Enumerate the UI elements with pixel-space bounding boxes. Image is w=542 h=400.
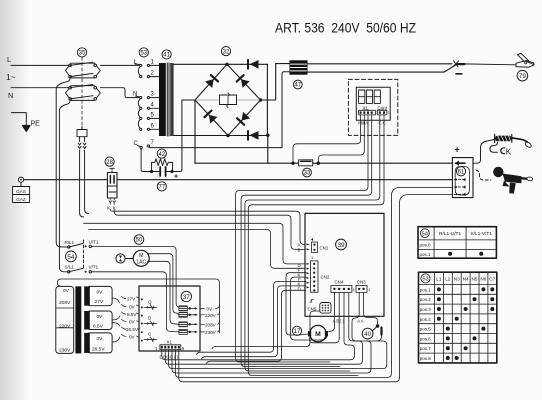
switch 54 contact row 1 [68,246,70,248]
wire negative output upper [308,63,453,65]
diode upper-right arm [237,75,250,88]
wire coil band to CN2-1 [84,223,306,264]
svg-text:27V: 27V [127,297,136,302]
svg-text:1AC: 1AC [136,259,146,265]
wire U/T1 to board 37 input a [92,246,181,308]
junction bottom output [266,134,269,137]
switch S35 motor coil box [77,130,87,137]
svg-text:26.5V: 26.5V [92,346,105,352]
aux secondary box 2 [87,311,112,330]
switch S53 contact row 2 [140,76,142,78]
svg-text:C7: C7 [489,277,495,282]
switch S53 gang curl L-2 [138,67,140,76]
secondary tap squiggles to board 37 [137,297,140,341]
bridge node top [225,63,228,66]
switch S35 pole 1 outline [66,63,101,78]
wire display X1 pin1 to choke33 left [293,115,361,162]
transformer T41 core [167,63,169,136]
wire tap6 [150,128,160,130]
board 37 triac block 2 [179,312,188,317]
wire coil feed 1 with disconnect marks [78,137,83,217]
svg-text:A A: A A [357,318,363,323]
svg-text:37: 37 [183,294,190,301]
wire CN2-F1 left loop down [202,286,307,359]
secondary tap label 27V [122,297,127,299]
capacitor C plates [160,167,165,176]
svg-text:pos.5: pos.5 [420,327,432,332]
wire CN2-3 to motor 17 [286,273,308,335]
fan icon 8 [116,254,125,263]
svg-text:77: 77 [158,185,165,191]
wire CN5 loop to bottom [212,311,320,349]
solenoid valve 28 vent mark [110,168,115,172]
svg-text:0V: 0V [129,305,136,310]
svg-text:GAZ: GAZ [16,197,26,202]
control board 37 box [139,286,200,351]
svg-text:61: 61 [458,170,465,176]
svg-text:40: 40 [364,331,371,338]
choke L33 circle label [303,168,312,177]
diode on bottom output line [250,131,259,140]
wire secondary bottom to bridge [174,135,228,137]
unit 61 inner contact rows [454,180,464,195]
svg-text:M: M [315,331,321,338]
svg-text:26.5V: 26.5V [126,327,139,332]
aux transformer primary loop wire [57,279,219,301]
wire V/T1 to board 37 input d [92,272,179,332]
mig torch cable hook [490,143,498,153]
wire display X1 pin2 to choke33 right [318,115,364,162]
svg-text:pos.2: pos.2 [420,297,432,302]
svg-text:pos.0: pos.0 [420,243,432,248]
svg-text:208V: 208V [205,322,217,327]
svg-text:8.5V: 8.5V [127,312,137,317]
svg-text:N6: N6 [480,277,486,282]
svg-text:230V: 230V [59,348,71,354]
7-segment digit 3 [374,90,380,103]
switch S35 pole 2 contacts [69,86,72,89]
svg-text:0V: 0V [97,336,104,342]
svg-text:A88A: A88A [358,121,368,126]
svg-text:0V: 0V [207,306,214,311]
svg-text:39: 39 [337,242,345,249]
wire CN3-A1 loop around potentiometer to bottom bundle [169,292,387,368]
dashed wire unit 61 to spool gun [476,170,491,180]
wire valve K2 to right [114,210,122,216]
transformer T41 circle label [162,50,171,59]
svg-text:PE: PE [31,121,41,128]
gas label box GAS/GAZ [20,182,22,186]
wire tap2 [150,76,160,78]
svg-text:54: 54 [422,231,428,237]
svg-text:230V: 230V [205,330,217,335]
wire L to main switch [100,64,138,66]
mig torch neck and nozzle [513,138,530,144]
svg-text:pos.4: pos.4 [420,317,432,322]
switch S35 actuating dashed link [81,57,83,129]
resistor R of snubber (zigzag) [152,159,173,166]
junction choke33 right [317,162,320,165]
connector CN3 [356,285,367,292]
svg-text:208V: 208V [59,300,71,306]
board 37 circle label [181,291,191,301]
svg-text:27V: 27V [95,299,104,305]
wire CN3-A2 to potentiometer [364,292,378,324]
wire bridge left vertex to corner [178,100,195,172]
svg-text:N5: N5 [472,277,478,282]
svg-text:220V: 220V [205,313,217,318]
wire junction down to plus bus [267,135,269,163]
board 37 output pin stubs [200,308,205,332]
work clamp 79 icon [518,53,530,63]
wire X1-37 pin5 to unit61 row3 [175,187,452,377]
svg-text:R/L1: R/L1 [65,240,75,245]
diode lower-right arm [237,112,250,125]
wire phase drop to R/L1 [56,78,70,247]
svg-text:0V: 0V [129,334,136,339]
unit 61 torch feed arrow [456,162,466,164]
svg-text:CN3: CN3 [357,280,366,285]
capacitor block 42 circle label [157,149,166,158]
svg-text:B: B [298,248,301,253]
svg-text:53: 53 [422,277,428,283]
svg-text:50: 50 [136,238,143,244]
diode lower-left arm [204,111,217,124]
wire tap3 [150,97,160,99]
svg-text:S/L1-V/T1: S/L1-V/T1 [470,231,492,237]
svg-text:0V: 0V [97,289,104,295]
switch S53 circle label [139,48,148,57]
potentiometer 40 circle label [362,328,373,339]
switch S35 pole 1 contacts [69,64,72,67]
wire X1-37 pin6 to unit61 row4 [179,195,453,382]
svg-text:220V: 220V [59,323,71,329]
secondary tap label 0V b [122,319,127,321]
svg-text:CN2: CN2 [321,275,330,280]
wire valve K2 band to CN1-B [122,215,306,249]
switch S53 contact row 1 [140,64,142,66]
wire secondary top to bridge [174,63,227,65]
svg-text:X1: X1 [363,105,369,110]
switch S53 contact row 6 [140,128,142,130]
connector CN1 [312,242,318,253]
spool gun handle [509,183,516,194]
svg-text:pos.1: pos.1 [420,287,432,292]
svg-text:U/T1: U/T1 [89,239,99,244]
aux transformer left box [56,286,74,353]
wire N input [11,87,70,89]
svg-text:R/L1-U/T1: R/L1-U/T1 [439,231,461,237]
wire CN3 area to bottom bundle [172,341,371,373]
wire coil feed 2 with disconnect marks [83,137,88,214]
spool gun reel [493,167,503,177]
secondary tap label 8.5V [122,312,127,314]
wire neutral drop to S/L1 [59,100,70,272]
board 37 output squiggles to primary bus [216,306,220,332]
fan motor circle label 50 [134,235,144,245]
main control board 39 box [305,213,384,316]
svg-text:35: 35 [79,51,86,57]
wire bridge top output through diode [229,63,268,65]
wire feeder unit 61 box [452,158,473,198]
wire tap4 [150,107,160,109]
aux secondary link wires [112,298,120,342]
legend table 54 circle [421,229,430,238]
wire tap5 [150,117,160,119]
junction snubber left [150,170,153,173]
bridge rectifier D32 circle label [221,47,230,56]
display board U-A88A outline [356,87,390,120]
svg-text:pos.6: pos.6 [420,336,432,341]
wire display X1 pin4 down long vertical to bottom bundle [241,115,372,367]
svg-text:79: 79 [519,73,527,80]
connector CN4 [331,285,352,292]
choke L47 (output inductor) [276,63,290,65]
svg-text:CN1: CN1 [320,246,329,251]
label 77 circle (capacitor line) [157,182,166,191]
svg-text:X1: X1 [167,340,173,345]
aux transformer secondary bar 1 [84,286,90,305]
switch 54 contact row 2 [68,271,70,273]
transformer T41 secondary winding [170,63,173,136]
wire CN2-4 to motor 17 [291,277,328,340]
switch S53 contact row 7 [140,146,142,148]
switch 54 circle label [66,251,77,262]
wire display Cont pin2 down long vertical to bottom bundle [248,115,384,376]
svg-text:54: 54 [67,254,75,261]
wire L input [11,64,70,66]
svg-text:CN4: CN4 [335,280,344,285]
bridge node bottom [226,134,229,137]
legend table 53 dots [437,287,494,360]
wire tap7 to C line [150,147,283,149]
svg-text:1: 1 [388,111,390,115]
svg-text:+: + [455,145,460,155]
wire CN2-K1 left loop down [207,290,307,363]
svg-text:1: 1 [368,288,370,292]
potentiometer 40 wiper and element [376,324,380,328]
svg-text:1: 1 [353,288,355,292]
svg-text:47: 47 [294,83,301,89]
diode on top output line [250,60,259,69]
svg-text:L2: L2 [445,277,451,282]
svg-text:ART. 536 240V 50/60 HZ: ART. 536 240V 50/60 HZ [275,21,416,36]
7-segment digit 2 [366,90,372,103]
svg-text:pos.8: pos.8 [420,356,432,361]
cable joint symbol [453,61,459,67]
svg-text:L: L [7,55,11,64]
svg-text:42: 42 [158,152,165,158]
svg-text:pos.1: pos.1 [420,252,432,257]
board 37 input pins [141,298,143,300]
aux transformer secondary bar 2 [84,311,90,330]
clamp circle label 79 [517,70,528,81]
wire display Cont pin1 down long vertical to bottom bundle [245,115,380,371]
wire coil band to CN2-2 [89,229,306,268]
node minus label [456,73,462,75]
wire feed motor M [310,325,326,341]
aux secondary box 3 [87,333,112,353]
valve wires with disconnect marks [109,198,112,205]
svg-text:K: K [506,148,512,157]
svg-text:1~: 1~ [6,72,16,82]
svg-text:0V: 0V [129,319,136,324]
legend table 53 [419,272,497,363]
svg-text:28: 28 [106,160,113,166]
svg-text:S/L1: S/L1 [65,265,75,270]
transformer T41 primary winding [159,63,166,136]
wire motor bottom to board 37 input c [148,261,179,324]
switch S53 gang curls 3-6 [138,99,140,107]
svg-text:V/T1: V/T1 [89,264,99,269]
legend table 54 [418,227,496,259]
mig torch CK coil [495,136,512,142]
svg-text:N: N [8,91,13,100]
switch S53 contact row 5 [140,117,142,119]
junction snubber right [170,170,173,173]
spool gun body [503,174,522,184]
wire CN4-B to motor [310,292,340,342]
wire bridge right vertex up to choke [261,64,276,100]
svg-text:Q: Q [148,299,152,304]
svg-text:Cont: Cont [378,105,388,110]
svg-text:0V: 0V [97,314,104,320]
connector X1 (display) 4-pin [359,110,376,115]
wire to work clamp [463,63,516,66]
svg-text:N3: N3 [454,277,460,282]
connector Cont 2-pin [377,110,387,115]
bridge rectifier D32 diamond [195,64,261,135]
wire bridge left vertex down to plus bus [194,100,196,163]
wire top output corner down to bottom junction [266,64,268,135]
wire choke lower line left corner down to tap7 line [282,72,290,148]
svg-text:53: 53 [140,51,147,57]
secondary tap label 0V c [122,334,127,336]
connector CN2 [311,261,319,292]
bridge node right [259,98,262,101]
switch S53 contact row 4 [140,107,142,109]
junction choke33 left [291,162,294,165]
snubber frame verticals [152,162,173,171]
wire bridge bottom output through diode [230,135,268,137]
7-segment digit 1 [359,90,365,103]
svg-text:L1: L1 [436,277,442,282]
svg-text:41: 41 [163,53,170,59]
switch 54 dashed link [83,240,85,270]
display board dashed enclosure [348,79,397,135]
wire valve K1 band to CN1-A [119,211,306,244]
secondary tap label 26.5V [122,327,127,329]
choke L47 circle label [293,80,302,89]
solenoid valve 28 coil [107,186,117,198]
svg-text:pos.7: pos.7 [420,346,432,351]
connector X1 of board 37 [160,345,181,350]
svg-text:0V: 0V [63,288,70,294]
solenoid valve 28 body [107,173,117,187]
svg-text:8.5V: 8.5V [93,324,104,330]
choke L33 body [299,160,313,166]
unit 61 inner rounded frame [455,167,469,196]
wire CN2-D1 left loop down [197,282,307,355]
gas line from terminal to unit 61 [21,179,452,181]
svg-text:33: 33 [304,171,311,177]
svg-text:32: 32 [223,49,230,55]
wire N to main switch (jog) [100,88,138,98]
wire tap1 [150,64,160,66]
board 37 triac block 1 [179,306,188,311]
diode upper-left arm [205,75,218,88]
board 37 triac block 3 [179,322,188,327]
solenoid valve 28 circle label [105,157,114,166]
svg-text:pos.3: pos.3 [420,307,432,312]
wire CN4-3 to bottom bundle [162,292,355,359]
svg-text:M: M [139,253,144,259]
ground PE symbol [11,113,26,126]
motor M 1AC circle [133,250,149,266]
switch S53 contact row 3 [140,97,142,99]
svg-text:GAS: GAS [16,189,26,194]
svg-text:N4: N4 [463,277,469,282]
wire display X1 pin3 down long vertical to bottom bundle [236,115,369,362]
wire unit 61 to mig torch [473,140,494,164]
gas inlet terminal [18,177,23,182]
board 37 triac block 4 [179,329,188,334]
aux secondary box 1 [87,286,112,305]
wire C contact down to capacitor block [141,149,152,172]
wire feed motor 17 circle label [292,326,301,335]
switch S35 circle label [77,48,86,57]
wire valve K1 to right [110,210,119,212]
wire motor top to board 37 input b [148,254,179,315]
legend table 53 circle [421,274,430,283]
snubber bottom line [152,171,180,173]
svg-text:17: 17 [294,329,301,335]
wire negative output lower [308,65,457,73]
wire CN4-4 to bottom bundle [165,292,362,364]
secondary tap label 0V a [122,305,127,307]
aux transformer secondary bar 3 [84,333,90,353]
board 37 output arrows [187,308,197,332]
fan shaft dash [126,258,133,260]
unit 61 circle label [456,167,465,176]
aux transformer primary bar [75,286,81,353]
node CK label [501,148,505,154]
switch S35 pole 2 outline [66,86,101,101]
wire CN4-A to motor [329,292,335,331]
thermal protector inside bridge [195,99,261,101]
board 39 circle label [336,239,347,250]
plus bus with choke 33 [195,162,452,164]
